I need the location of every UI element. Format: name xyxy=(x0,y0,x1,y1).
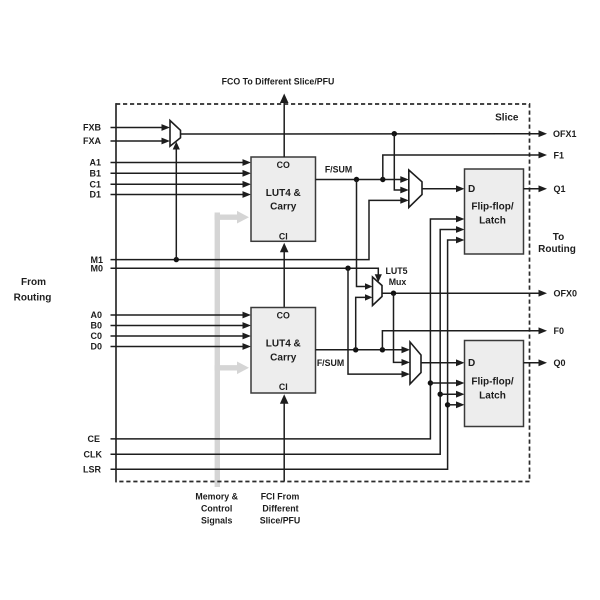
junction F/SUM to LUT5 mux xyxy=(354,177,359,182)
svg-text:Latch: Latch xyxy=(479,390,506,401)
wire Q1 output xyxy=(524,188,541,190)
wire M0 input (to LUT5 mux select) xyxy=(111,268,379,275)
svg-text:LUT4 &: LUT4 & xyxy=(266,188,301,199)
junction F/SUM to F1 xyxy=(380,177,385,182)
wire A1 input xyxy=(111,162,244,164)
svg-text:FCI From: FCI From xyxy=(261,491,300,501)
wire LSR (to both flip-flops) xyxy=(111,240,458,469)
junction OFX1 to upper mux xyxy=(392,131,397,136)
wire M1 input (to upper mux data input) xyxy=(111,200,402,259)
junction lower F/SUM to LUT5 mux xyxy=(353,347,358,352)
lower Flip-flop/Latch block xyxy=(465,341,524,427)
svg-text:Carry: Carry xyxy=(270,202,297,213)
junction CE to lower FF xyxy=(428,380,433,385)
svg-text:A0: A0 xyxy=(90,310,102,320)
svg-text:D1: D1 xyxy=(89,190,101,200)
svg-text:Routing: Routing xyxy=(14,293,52,304)
svg-text:Flip-flop/: Flip-flop/ xyxy=(471,201,513,212)
wire FXB input xyxy=(111,127,163,129)
wire B0 input xyxy=(111,325,244,327)
svg-text:CO: CO xyxy=(277,160,290,170)
svg-text:D: D xyxy=(468,358,475,369)
svg-text:Slice: Slice xyxy=(495,112,519,123)
wire D0 input xyxy=(111,346,244,348)
wire F1 output xyxy=(383,155,540,180)
lower output mux xyxy=(410,342,421,384)
svg-text:F/SUM: F/SUM xyxy=(325,164,352,174)
wire LSR branch to lower FF xyxy=(448,404,458,406)
memory/control signals gray bus (vertical) xyxy=(215,213,220,488)
FX mux (2:1) xyxy=(170,121,181,147)
svg-text:D0: D0 xyxy=(90,342,102,352)
wire FX mux select xyxy=(175,149,177,260)
wire FCI (carry in from bottom) xyxy=(283,402,285,482)
svg-text:F1: F1 xyxy=(554,150,565,160)
svg-text:D: D xyxy=(468,184,475,195)
wire CE (to both flip-flops) xyxy=(111,219,458,439)
svg-text:Slice/PFU: Slice/PFU xyxy=(260,515,301,525)
wire C1 input xyxy=(111,183,244,185)
svg-text:Q1: Q1 xyxy=(554,184,566,194)
svg-text:B1: B1 xyxy=(89,169,101,179)
svg-text:C0: C0 xyxy=(90,331,102,341)
wire F/SUM (lower LUT output) xyxy=(316,349,404,351)
svg-text:CE: CE xyxy=(87,434,100,444)
wire F0 output xyxy=(382,331,540,350)
wire upper mux to FF D xyxy=(422,188,458,190)
wire OFX1 (FX mux output) xyxy=(181,133,541,135)
svg-text:To: To xyxy=(553,232,564,243)
junction M0 branch xyxy=(345,266,350,271)
wire OFX0 output xyxy=(382,292,540,294)
svg-text:A1: A1 xyxy=(89,158,101,168)
wire lower mux to FF D xyxy=(421,362,458,364)
svg-text:Different: Different xyxy=(262,503,298,513)
upper Flip-flop/Latch block xyxy=(465,169,524,254)
svg-text:LUT5: LUT5 xyxy=(386,266,408,276)
svg-text:CO: CO xyxy=(277,311,290,321)
svg-text:Flip-flop/: Flip-flop/ xyxy=(471,376,513,387)
lower LUT4 & Carry block xyxy=(251,308,316,394)
slice boundary (dashed box, solid left edge) xyxy=(116,104,530,482)
wire lower F/SUM up to LUT5 mux input xyxy=(356,297,366,349)
gray arrow into lower LUT4 xyxy=(215,365,238,370)
wire FXA input xyxy=(111,140,163,142)
junction M1/FX-mux select xyxy=(174,257,179,262)
svg-text:Signals: Signals xyxy=(201,515,232,525)
svg-text:Control: Control xyxy=(201,503,232,513)
wire M0 branch to lower mux xyxy=(348,268,403,374)
upper LUT4 & Carry block xyxy=(251,157,316,241)
wire CLK branch to lower FF xyxy=(440,393,457,395)
wire D1 input xyxy=(111,194,244,196)
svg-text:B0: B0 xyxy=(90,321,102,331)
wire FCO (carry out to top) xyxy=(283,103,285,157)
svg-text:M0: M0 xyxy=(90,263,103,273)
wire OFX0 down to lower mux xyxy=(394,293,404,362)
wire OFX1 down to upper mux xyxy=(394,134,402,190)
svg-text:OFX0: OFX0 xyxy=(554,289,578,299)
svg-text:F/SUM: F/SUM xyxy=(317,358,344,368)
svg-text:Memory &: Memory & xyxy=(195,491,238,501)
svg-text:CLK: CLK xyxy=(84,449,103,459)
wire F/SUM (upper LUT output) xyxy=(316,179,402,181)
junction lower F/SUM to F0 xyxy=(380,347,385,352)
svg-text:Mux: Mux xyxy=(389,277,407,287)
wire CLK (to both flip-flops) xyxy=(111,230,458,455)
LUT5 mux xyxy=(373,277,383,306)
wire carry chain between LUTs xyxy=(283,252,285,308)
svg-text:CI: CI xyxy=(279,231,288,241)
svg-text:OFX1: OFX1 xyxy=(553,129,577,139)
svg-text:F0: F0 xyxy=(554,326,565,336)
svg-text:CI: CI xyxy=(279,382,288,392)
wire CE branch to lower FF xyxy=(430,382,457,384)
junction OFX0 to lower mux xyxy=(391,291,396,296)
svg-text:FXB: FXB xyxy=(83,123,102,133)
wire B1 input xyxy=(111,172,244,174)
wire F/SUM down to LUT5 mux input xyxy=(357,180,367,287)
svg-text:LUT4 &: LUT4 & xyxy=(266,339,301,350)
svg-text:FXA: FXA xyxy=(83,136,102,146)
svg-text:LSR: LSR xyxy=(83,464,102,474)
svg-text:C1: C1 xyxy=(89,180,101,190)
junction CLK to lower FF xyxy=(438,392,443,397)
wire Q0 output xyxy=(524,362,541,364)
svg-text:FCO To Different Slice/PFU: FCO To Different Slice/PFU xyxy=(222,76,335,86)
svg-text:Routing: Routing xyxy=(538,244,576,255)
junction LSR to lower FF xyxy=(445,402,450,407)
svg-text:Latch: Latch xyxy=(479,215,506,226)
gray arrow into upper LUT4 xyxy=(215,214,238,219)
wire A0 input xyxy=(111,314,244,316)
svg-text:Q0: Q0 xyxy=(554,358,566,368)
svg-text:Carry: Carry xyxy=(270,352,297,363)
upper output mux xyxy=(409,170,422,208)
wire C0 input xyxy=(111,335,244,337)
svg-text:From: From xyxy=(21,277,46,288)
